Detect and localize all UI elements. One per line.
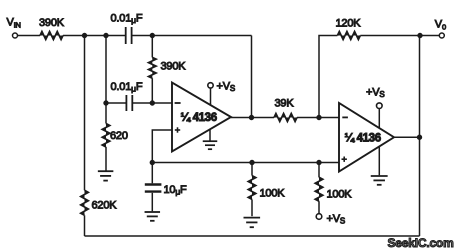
terminal +VS (100K #2) [316, 214, 322, 220]
wire: left rail (620K feedback column) [84, 36, 86, 191]
wire: 39K to op2 inverting input [297, 117, 339, 119]
op2 plus marker [342, 158, 347, 160]
ground (op2) [378, 147, 380, 176]
svg-text:100K: 100K [260, 187, 286, 199]
node: 100K #1 junction [250, 160, 254, 164]
wire: 620 to ground [105, 147, 107, 171]
node: op1 inverting node junction [150, 101, 154, 105]
node A junction [82, 33, 86, 37]
svg-text:39K: 39K [275, 98, 295, 110]
wire: middle rail [152, 162, 339, 164]
terminal VO [439, 33, 444, 38]
terminal +VS (op2) [378, 108, 380, 128]
wire: bottom rail [85, 235, 420, 237]
svg-text:390K: 390K [39, 17, 65, 29]
node: 100K #2 junction [317, 160, 321, 164]
wire: right vertical (VO / feedback) [419, 36, 421, 237]
svg-text:¼ 4136: ¼ 4136 [345, 133, 381, 145]
node B junction [104, 33, 108, 37]
wire: VIN lead [17, 35, 40, 37]
node: op2 output junction [417, 135, 421, 139]
capacitor C2 0.01uF [125, 95, 127, 111]
wire: C2 right to op1 inverting input [132, 102, 172, 104]
op1 plus marker [175, 129, 180, 131]
svg-text:390K: 390K [161, 61, 187, 73]
node: C2 left junction [104, 101, 108, 105]
svg-text:¼ 4136: ¼ 4136 [181, 112, 217, 124]
terminal +VS (op1) [210, 88, 212, 105]
node C junction (C1/R390K fb top) [150, 33, 154, 37]
wire: 120K to VO [360, 35, 439, 37]
wire: C2 left lead [106, 102, 126, 104]
svg-text:10μF: 10μF [164, 184, 188, 197]
wire: op2 output [394, 136, 420, 138]
ground (10uF) [145, 211, 161, 213]
wire: 120K left leg [319, 36, 337, 118]
svg-text:SeekIC.com: SeekIC.com [388, 236, 454, 250]
svg-text:620: 620 [110, 130, 128, 142]
resistor 100K #1 [251, 163, 253, 176]
svg-text:620K: 620K [92, 200, 118, 212]
resistor 620K [81, 190, 89, 215]
resistor 620 [102, 124, 110, 148]
terminal VIN [13, 33, 18, 38]
wire: op1 output to 39K [231, 117, 274, 119]
resistor 39K [274, 114, 297, 122]
ground (620) [98, 170, 114, 172]
ground (op1) [209, 130, 211, 141]
svg-text:120K: 120K [336, 17, 362, 29]
wire: op1 noninverting input to middle rail [152, 130, 172, 163]
node: VO junction [418, 33, 422, 37]
op-amp U1 (1/4 4136) triangle [172, 83, 231, 152]
wire: C1 to corner [132, 35, 252, 37]
op-amp U2 (1/4 4136) triangle [339, 103, 394, 172]
svg-text:0.01μF: 0.01μF [111, 81, 143, 94]
resistor 390K feedback (vertical) [151, 36, 153, 58]
ground (100K #1) [244, 217, 261, 219]
op2 minus marker [342, 116, 348, 118]
op1 minus marker [175, 102, 181, 104]
capacitor 10uF [151, 163, 153, 184]
wire: top rail R1 to C1 [63, 35, 125, 37]
node: middle rail left junction [150, 160, 154, 164]
wire: column B down to C2 and 620 [105, 36, 107, 124]
svg-text:100K: 100K [327, 189, 353, 201]
capacitor C1 0.01uF [125, 27, 127, 44]
resistor R1 390K (input) [40, 32, 63, 40]
node: op1 output junction [249, 115, 253, 119]
wire: 620K to bottom rail [84, 215, 86, 236]
svg-text:0.01μF: 0.01μF [111, 12, 143, 25]
node: op2 inverting junction [317, 115, 321, 119]
resistor 100K #2 [318, 163, 320, 178]
resistor 120K [337, 32, 360, 40]
wire: corner down to op1 output [251, 36, 253, 118]
